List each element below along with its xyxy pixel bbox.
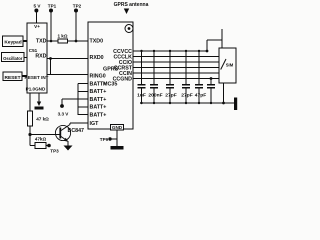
svg-text:RESET: RESET <box>5 75 21 81</box>
svg-text:SIM: SIM <box>226 63 234 68</box>
svg-text:BATT+: BATT+ <box>90 97 107 103</box>
svg-text:47kΩ: 47kΩ <box>35 137 47 142</box>
svg-text:TP9: TP9 <box>100 137 109 142</box>
svg-text:RING0: RING0 <box>90 74 106 80</box>
svg-text:RXD: RXD <box>35 54 46 60</box>
svg-text:27pF: 27pF <box>181 93 192 99</box>
svg-text:1uF: 1uF <box>137 93 146 99</box>
svg-text:BC847: BC847 <box>68 128 85 134</box>
svg-text:RXD0: RXD0 <box>90 55 104 61</box>
svg-text:Oscillator: Oscillator <box>3 56 23 61</box>
svg-text:BATT+: BATT+ <box>90 113 107 119</box>
svg-text:Keypad: Keypad <box>4 40 21 46</box>
svg-text:TXD: TXD <box>36 39 47 45</box>
svg-text:P1.0GND: P1.0GND <box>26 87 46 92</box>
svg-text:TP2: TP2 <box>73 4 82 9</box>
svg-text:BATT+: BATT+ <box>90 89 107 95</box>
svg-text:TP3: TP3 <box>50 149 59 154</box>
svg-text:C51: C51 <box>29 48 38 53</box>
svg-text:200nF: 200nF <box>148 93 162 99</box>
svg-text:RESET INT: RESET INT <box>25 75 49 80</box>
svg-text:5 V: 5 V <box>34 4 42 9</box>
svg-text:47 kΩ: 47 kΩ <box>36 117 49 122</box>
svg-text:IGT: IGT <box>90 121 100 127</box>
svg-text:BATT+: BATT+ <box>90 105 107 111</box>
svg-text:TXD0: TXD0 <box>90 39 104 45</box>
svg-text:47pF: 47pF <box>195 93 206 99</box>
svg-text:GPRS antenna: GPRS antenna <box>114 2 149 8</box>
svg-text:V+: V+ <box>34 24 40 29</box>
svg-text:GPRS: GPRS <box>103 67 119 73</box>
svg-text:1 kΩ: 1 kΩ <box>57 33 67 38</box>
svg-text:MC35: MC35 <box>103 82 117 88</box>
svg-text:TP1: TP1 <box>48 4 57 9</box>
svg-text:3.3 V: 3.3 V <box>58 112 70 117</box>
svg-text:GND: GND <box>112 125 123 130</box>
svg-text:27pF: 27pF <box>165 93 176 99</box>
